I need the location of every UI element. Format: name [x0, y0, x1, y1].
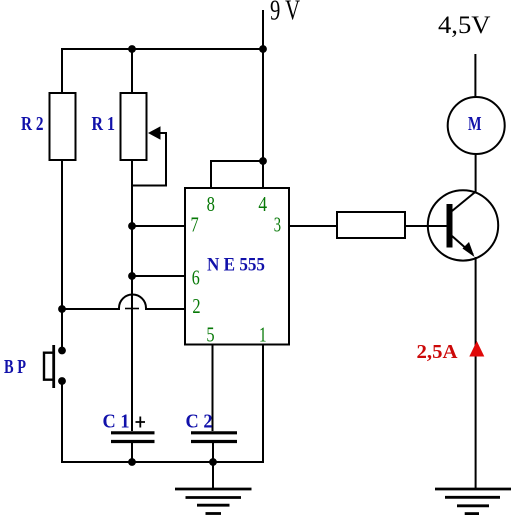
node pin 6 junction — [128, 272, 136, 280]
wire pin 8 loop — [211, 161, 263, 188]
svg-text:4,5V: 4,5V — [438, 12, 491, 39]
label C1 plus — [136, 417, 146, 428]
base resistor — [337, 212, 405, 238]
transistor Q1 emitter arrowhead — [463, 242, 475, 257]
op-amp / IC U1 NE555 body — [185, 188, 289, 345]
node bottom rail / C1 junction — [128, 458, 136, 466]
svg-text:M: M — [468, 113, 482, 135]
svg-text:C 1: C 1 — [103, 411, 130, 433]
wire pin 2 cross tick — [125, 308, 139, 310]
push button BP top contact dot — [58, 347, 66, 355]
transistor Q1 base bar — [447, 204, 453, 248]
resistor R2 — [50, 93, 76, 160]
ground (right) bar 2 — [445, 496, 500, 499]
wire base resistor to transistor base — [405, 225, 447, 227]
transistor Q1 collector diagonal — [452, 192, 476, 212]
current arrow 2,5A (red) — [469, 341, 484, 357]
svg-text:3: 3 — [274, 213, 281, 237]
svg-text:2: 2 — [192, 294, 200, 318]
wire motor to collector — [475, 154, 477, 192]
wire pin 2 hop over C1 wire — [119, 295, 146, 311]
wire 4,5V down to motor — [474, 54, 476, 97]
svg-text:2,5A: 2,5A — [417, 341, 459, 363]
potentiometer R1 wiper arrow — [148, 126, 161, 139]
svg-text:7: 7 — [191, 213, 199, 237]
svg-text:N E 555: N E 555 — [207, 255, 265, 276]
svg-text:B P: B P — [4, 356, 26, 378]
wire 9V supply vertical down to pin 4 — [262, 10, 264, 188]
wire pin 7 — [132, 225, 185, 227]
wire left rail upper (top rail down to BP) — [61, 48, 63, 350]
svg-text:R 1: R 1 — [92, 113, 116, 135]
wire pin 1 down to bottom rail — [262, 345, 264, 461]
wire pin 3 to base resistor — [290, 225, 337, 227]
svg-text:8: 8 — [207, 192, 215, 216]
ground (middle) bar 3 — [197, 504, 230, 507]
wire pin 6 — [132, 275, 185, 277]
svg-text:C 2: C 2 — [186, 411, 213, 433]
svg-text:1: 1 — [259, 323, 267, 347]
ground (middle) bar 2 — [186, 496, 242, 499]
ground (middle) bar 4 — [206, 512, 222, 515]
wire pin 5 down to C2 — [212, 345, 214, 431]
wire left rail lower (BP down to bottom rail) — [61, 381, 63, 463]
node pin 7 junction — [128, 222, 136, 230]
ground (middle) bar 1 — [175, 488, 252, 491]
push button BP actuator bar — [52, 345, 55, 388]
ground (middle) stem — [212, 462, 214, 488]
svg-text:9 V: 9 V — [270, 0, 300, 27]
svg-text:4: 4 — [258, 192, 267, 216]
svg-text:5: 5 — [206, 323, 214, 347]
svg-text:6: 6 — [192, 265, 200, 289]
capacitor C1 bottom plate — [111, 440, 155, 443]
wire emitter down to right ground — [475, 257, 477, 489]
ground (right) bar 3 — [457, 504, 489, 507]
push button BP bracket — [44, 353, 53, 380]
transistor Q1 circle — [428, 190, 498, 260]
capacitor C2 top plate — [191, 431, 237, 434]
node bottom rail / C2 junction — [209, 458, 217, 466]
wire top rail from left rail to 9V line — [61, 48, 264, 50]
node top rail / 9V junction — [259, 45, 267, 53]
node top rail / R1 junction — [128, 45, 136, 53]
node pin 2 / left rail junction — [58, 305, 66, 313]
push button BP bottom contact dot — [58, 377, 66, 385]
capacitor C2 bottom plate — [191, 440, 237, 443]
potentiometer R1 body — [121, 93, 147, 160]
node 9V / pin8 loop junction — [259, 157, 267, 165]
wire C2 bottom to bottom rail — [212, 443, 214, 462]
capacitor C1 top plate — [111, 431, 155, 434]
wire bottom rail — [61, 461, 264, 463]
potentiometer R1 wiper return wire — [133, 133, 166, 186]
wire pin 2 left part — [62, 308, 119, 310]
svg-text:R 2: R 2 — [21, 113, 44, 135]
motor M circle — [448, 97, 505, 154]
wire R1 branch vertical (top rail through R1 down to C1) — [131, 48, 133, 431]
ground (right) bar 4 — [465, 512, 479, 515]
ground (right) bar 1 — [435, 488, 511, 491]
transistor Q1 emitter diagonal — [452, 236, 473, 255]
wire C1 bottom to bottom rail — [131, 443, 133, 463]
wire pin 2 right part — [146, 308, 185, 310]
